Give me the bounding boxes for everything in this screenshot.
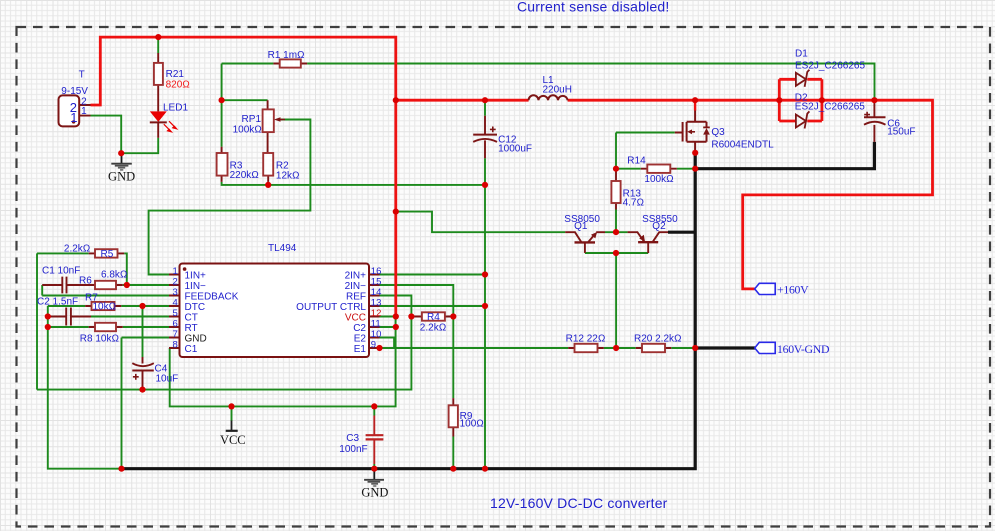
svg-text:R20 2.2kΩ: R20 2.2kΩ [634, 334, 682, 345]
svg-text:220kΩ: 220kΩ [230, 170, 259, 181]
svg-text:E1: E1 [354, 344, 367, 355]
svg-text:E2: E2 [354, 334, 367, 345]
svg-text:220uH: 220uH [543, 84, 572, 95]
svg-text:6.8kΩ: 6.8kΩ [101, 269, 128, 280]
svg-text:1: 1 [173, 266, 178, 277]
svg-text:Q2: Q2 [652, 221, 666, 232]
svg-text:100kΩ: 100kΩ [644, 174, 673, 185]
svg-text:2IN+: 2IN+ [345, 271, 367, 282]
svg-text:FEEDBACK: FEEDBACK [185, 292, 239, 303]
svg-text:1: 1 [70, 110, 77, 125]
svg-text:12V-160V DC-DC converter: 12V-160V DC-DC converter [490, 495, 668, 511]
svg-text:150uF: 150uF [887, 127, 915, 138]
svg-text:T: T [79, 70, 85, 81]
svg-text:RT: RT [185, 323, 198, 334]
svg-text:2.2kΩ: 2.2kΩ [420, 323, 447, 334]
svg-text:1IN−: 1IN− [185, 281, 207, 292]
svg-text:R14: R14 [627, 156, 646, 167]
svg-text:10uF: 10uF [156, 373, 179, 384]
svg-text:Current sense disabled!: Current sense disabled! [517, 0, 669, 15]
svg-text:14: 14 [371, 287, 382, 298]
svg-text:9: 9 [371, 340, 376, 351]
svg-text:LED1: LED1 [163, 102, 188, 113]
svg-text:C3: C3 [346, 433, 359, 444]
svg-text:7: 7 [173, 329, 178, 340]
svg-text:DTC: DTC [185, 302, 206, 313]
svg-text:13: 13 [371, 298, 382, 309]
svg-text:4: 4 [173, 298, 178, 309]
svg-text:+160V: +160V [777, 283, 809, 297]
svg-text:4.7Ω: 4.7Ω [623, 197, 645, 208]
svg-text:R12 22Ω: R12 22Ω [566, 334, 606, 345]
svg-text:10: 10 [371, 329, 382, 340]
svg-text:2IN−: 2IN− [345, 281, 367, 292]
svg-text:12: 12 [371, 308, 382, 319]
svg-text:R8 10kΩ: R8 10kΩ [80, 334, 119, 345]
svg-text:1: 1 [81, 106, 87, 117]
svg-text:VCC: VCC [345, 313, 366, 324]
svg-text:ES2J_C266265: ES2J_C266265 [795, 61, 865, 72]
svg-text:2: 2 [173, 277, 178, 288]
svg-text:TL494: TL494 [268, 243, 297, 254]
svg-text:1IN+: 1IN+ [185, 271, 207, 282]
svg-text:C2 1.5nF: C2 1.5nF [37, 297, 78, 308]
svg-text:Q1: Q1 [574, 221, 588, 232]
svg-text:CT: CT [185, 313, 198, 324]
svg-text:2.2kΩ: 2.2kΩ [64, 243, 91, 254]
svg-text:R21: R21 [166, 69, 185, 80]
svg-text:R5: R5 [101, 249, 114, 260]
svg-text:C2: C2 [353, 323, 366, 334]
svg-text:R6: R6 [79, 276, 92, 287]
svg-text:GND: GND [361, 485, 388, 499]
svg-text:100Ω: 100Ω [460, 418, 484, 429]
svg-text:Q3: Q3 [711, 127, 725, 138]
svg-text:6: 6 [173, 319, 178, 330]
svg-text:16: 16 [371, 266, 382, 277]
svg-text:9-15V: 9-15V [61, 86, 88, 97]
svg-text:RP1: RP1 [242, 114, 262, 125]
svg-text:1000uF: 1000uF [498, 143, 532, 154]
svg-text:REF: REF [346, 292, 366, 303]
svg-text:C1: C1 [185, 344, 198, 355]
svg-text:ES2J_C266265: ES2J_C266265 [795, 102, 865, 113]
svg-text:11: 11 [371, 319, 381, 330]
svg-text:5: 5 [173, 308, 178, 319]
svg-text:R1 1mΩ: R1 1mΩ [268, 50, 305, 61]
svg-text:160V-GND: 160V-GND [777, 342, 830, 356]
svg-text:100kΩ: 100kΩ [233, 125, 262, 136]
svg-text:C1 10nF: C1 10nF [42, 266, 80, 277]
svg-text:100nF: 100nF [339, 444, 367, 455]
svg-text:VCC: VCC [220, 433, 246, 447]
svg-text:8: 8 [173, 340, 178, 351]
svg-text:12kΩ: 12kΩ [276, 171, 300, 182]
svg-text:OUTPUT CTRL: OUTPUT CTRL [296, 302, 366, 313]
svg-text:820Ω: 820Ω [166, 80, 190, 91]
svg-text:10kΩ: 10kΩ [93, 301, 117, 312]
svg-text:GND: GND [185, 334, 207, 345]
svg-text:15: 15 [371, 277, 382, 288]
svg-text:3: 3 [173, 287, 178, 298]
svg-text:R6004ENDTL: R6004ENDTL [711, 140, 774, 151]
svg-text:GND: GND [108, 169, 135, 183]
svg-text:R4: R4 [427, 312, 440, 323]
svg-text:D1: D1 [795, 48, 808, 59]
